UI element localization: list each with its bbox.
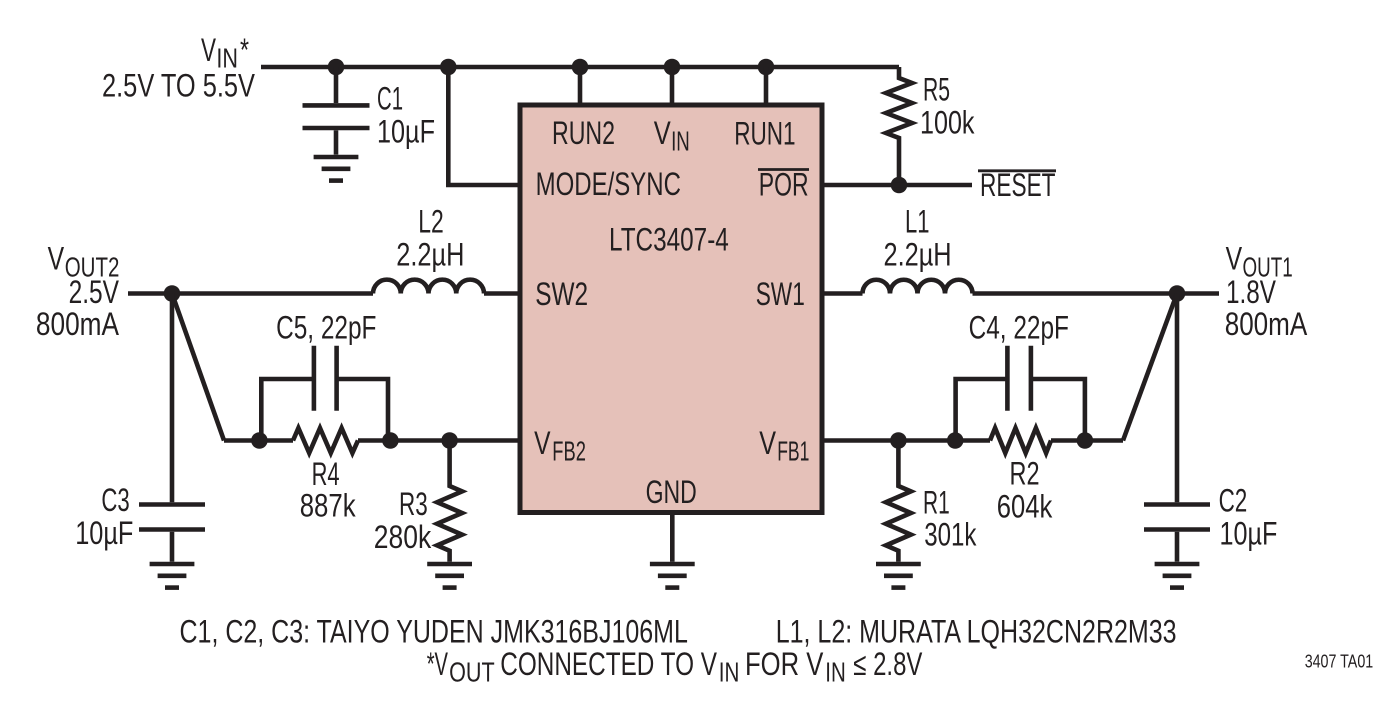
svg-text:IN: IN <box>671 125 690 156</box>
op-amp U1 LTC3407-4 body <box>520 105 822 513</box>
svg-text:800mA: 800mA <box>36 306 120 342</box>
label R5 100k <box>920 72 975 141</box>
wire L2 to SW2 <box>484 291 520 296</box>
svg-text:V: V <box>654 115 672 151</box>
wire RUN1 stub <box>764 67 769 105</box>
svg-text:C3: C3 <box>101 482 129 518</box>
svg-text:RUN2: RUN2 <box>552 115 615 151</box>
wire SW1 to L1 <box>822 291 863 296</box>
svg-text:V: V <box>1226 240 1243 276</box>
svg-text:FB2: FB2 <box>552 436 586 467</box>
svg-text:L1, L2: MURATA LQH32CN2R2M33: L1, L2: MURATA LQH32CN2R2M33 <box>776 613 1177 649</box>
pin GND label <box>646 474 697 510</box>
node junction RUN2 <box>572 59 589 76</box>
svg-text:LTC3407-4: LTC3407-4 <box>609 222 729 258</box>
svg-text:10µF: 10µF <box>1220 516 1278 552</box>
pin SW1 label <box>756 276 805 312</box>
wire VFB2 feedback rail <box>224 438 520 443</box>
svg-text:1.8V: 1.8V <box>1226 274 1276 310</box>
node junction R3 top <box>441 432 458 449</box>
node junction POR / R5 <box>891 177 908 194</box>
label LTC3407-4 <box>609 222 729 258</box>
svg-text:L2: L2 <box>418 203 444 239</box>
node VOUT1 output label <box>1225 240 1308 342</box>
svg-text:887k: 887k <box>300 488 357 524</box>
svg-text:*V: *V <box>427 646 449 682</box>
svg-text:V: V <box>201 32 216 68</box>
ground below R3 <box>427 564 472 588</box>
pin VFB1 label <box>759 425 809 467</box>
svg-text:604k: 604k <box>997 489 1053 525</box>
node junction R2 right <box>1077 432 1094 449</box>
wire VFB1 feedback rail <box>822 438 1123 443</box>
svg-text:IN: IN <box>825 657 846 688</box>
svg-text:C4, 22pF: C4, 22pF <box>969 310 1069 346</box>
svg-text:RUN1: RUN1 <box>734 115 795 151</box>
ground below R1 <box>876 564 921 588</box>
inductor L2 <box>373 280 484 294</box>
svg-text:OUT: OUT <box>449 657 495 688</box>
ground below C3 <box>150 564 195 588</box>
svg-text:FB1: FB1 <box>777 436 809 467</box>
net RESET label <box>978 167 1056 203</box>
wire VIN stub <box>670 67 675 105</box>
svg-text:CONNECTED TO V: CONNECTED TO V <box>500 646 717 682</box>
svg-text:2.5V: 2.5V <box>69 274 120 310</box>
svg-text:L1: L1 <box>905 203 930 239</box>
wire POR to RESET <box>822 183 972 188</box>
svg-text:≤ 2.8V: ≤ 2.8V <box>853 646 923 682</box>
svg-text:R1: R1 <box>923 484 950 520</box>
label R2 604k <box>997 456 1053 525</box>
svg-text:301k: 301k <box>924 517 977 553</box>
svg-text:R3: R3 <box>399 486 428 522</box>
resistor R3 <box>437 441 462 562</box>
node VIN input label <box>102 32 256 104</box>
wire VOUT2 to L2 <box>128 291 373 296</box>
svg-text:C5, 22pF: C5, 22pF <box>276 310 376 346</box>
label C3 10uF <box>75 482 133 551</box>
node junction VOUT1 <box>1169 285 1186 302</box>
svg-text:R2: R2 <box>1010 456 1040 492</box>
svg-text:2.5V TO 5.5V: 2.5V TO 5.5V <box>102 68 256 104</box>
svg-text:C1: C1 <box>377 81 403 117</box>
wire MODE/SYNC branch <box>448 67 520 185</box>
wire VOUT2 diagonal to feedback <box>172 294 224 441</box>
pin VFB2 label <box>534 425 586 467</box>
note figure number 3407 TA01 <box>1305 651 1374 671</box>
svg-text:10µF: 10µF <box>377 114 435 150</box>
resistor R4 <box>293 428 358 453</box>
capacitor C3 <box>139 294 205 562</box>
svg-text:SW2: SW2 <box>535 276 588 312</box>
node junction VOUT2 <box>164 285 181 302</box>
pin POR label <box>758 166 809 202</box>
node junction VIN pin <box>664 59 681 76</box>
pin RUN1 label <box>734 115 795 151</box>
label L1 2.2uH <box>884 203 952 272</box>
svg-text:V: V <box>48 240 65 276</box>
label R4 887k <box>300 456 357 523</box>
node VOUT2 output label <box>36 240 120 342</box>
pin MODE/SYNC label <box>536 166 681 202</box>
svg-text:V: V <box>759 425 776 461</box>
node junction RUN1 <box>758 59 775 76</box>
svg-text:2.2µH: 2.2µH <box>396 236 464 272</box>
node junction R1 top <box>890 432 907 449</box>
capacitor C1 <box>303 67 370 155</box>
svg-text:FOR V: FOR V <box>745 646 824 682</box>
svg-text:C1, C2, C3: TAIYO YUDEN JMK316: C1, C2, C3: TAIYO YUDEN JMK316BJ106ML <box>180 613 688 649</box>
wire L1 to VOUT1 <box>973 291 1220 296</box>
wire GND pin stub <box>670 513 675 562</box>
capacitor C2 <box>1144 294 1210 562</box>
note VOUT connection <box>427 646 923 688</box>
svg-text:IN: IN <box>719 657 740 688</box>
svg-text:GND: GND <box>646 474 697 510</box>
resistor R1 <box>886 441 911 562</box>
inductor L1 <box>863 280 973 294</box>
svg-text:10µF: 10µF <box>75 515 133 551</box>
svg-text:280k: 280k <box>374 519 432 555</box>
wire VOUT1 diagonal to feedback <box>1123 294 1177 441</box>
note capacitors sourcing <box>180 613 688 649</box>
wire top VIN rail <box>261 65 899 70</box>
wire RUN2 stub <box>578 67 583 105</box>
node junction R4 left <box>251 432 268 449</box>
capacitor C4 <box>956 346 1085 441</box>
svg-text:MODE/SYNC: MODE/SYNC <box>536 166 681 202</box>
capacitor C5 <box>261 346 388 441</box>
node junction R4 right <box>382 432 399 449</box>
svg-text:V: V <box>534 425 551 461</box>
label L2 2.2uH <box>396 203 464 272</box>
ground below C1 <box>314 157 359 181</box>
svg-text:3407 TA01: 3407 TA01 <box>1305 651 1374 671</box>
node junction R2 left <box>947 432 964 449</box>
node junction C1 tap <box>328 59 345 76</box>
svg-text:*: * <box>240 32 249 68</box>
label C1 10uF <box>377 81 435 150</box>
svg-text:SW1: SW1 <box>756 276 805 312</box>
svg-text:100k: 100k <box>920 105 975 141</box>
resistor R5 <box>886 67 912 185</box>
svg-text:C2: C2 <box>1219 482 1248 518</box>
svg-text:800mA: 800mA <box>1225 306 1308 342</box>
pin RUN2 label <box>552 115 615 151</box>
svg-text:POR: POR <box>759 166 809 202</box>
label R3 280k <box>374 486 432 555</box>
label C4 22pF <box>969 310 1069 346</box>
resistor R2 <box>990 428 1051 453</box>
label R1 301k <box>923 484 977 552</box>
label C2 10uF <box>1219 482 1278 551</box>
ground below GND pin <box>650 564 695 588</box>
note inductors sourcing <box>776 613 1177 649</box>
label C5 22pF <box>276 310 376 346</box>
svg-text:RESET: RESET <box>980 167 1056 203</box>
pin SW2 label <box>535 276 588 312</box>
node junction MODE/SYNC tap <box>440 59 457 76</box>
ground below C2 <box>1155 564 1200 588</box>
svg-text:R5: R5 <box>923 72 950 108</box>
svg-text:2.2µH: 2.2µH <box>884 236 952 272</box>
pin VIN label <box>654 115 690 156</box>
